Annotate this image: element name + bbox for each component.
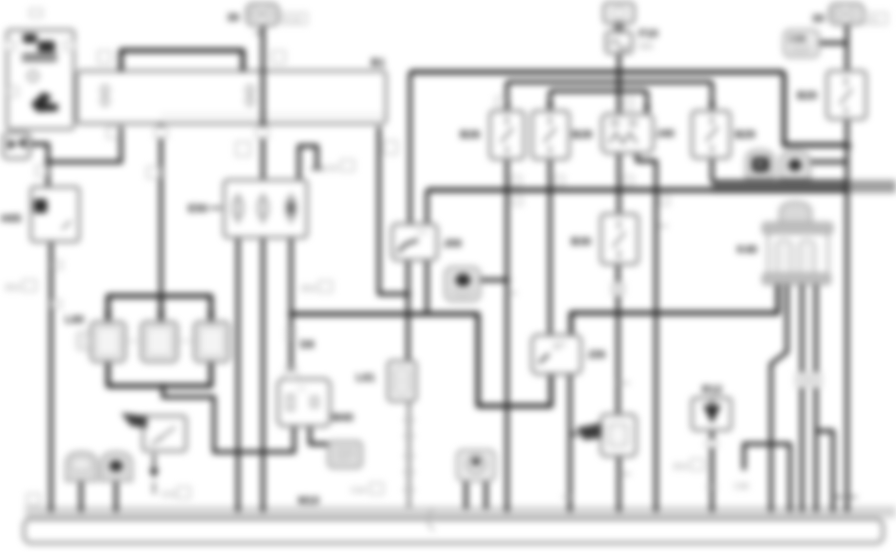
relay box B29 bbox=[692, 111, 730, 158]
C08 inner marks bbox=[790, 48, 812, 52]
connector 30 top-center bbox=[247, 4, 278, 25]
arrowhead relay B29 feed bbox=[708, 103, 716, 110]
svg-text:B1: B1 bbox=[371, 57, 385, 69]
wire bracket over B1 top bbox=[121, 51, 243, 72]
svg-text:C15: C15 bbox=[323, 164, 338, 173]
svg-text:J26: J26 bbox=[587, 349, 605, 361]
svg-text:B29: B29 bbox=[735, 129, 755, 141]
wire horn rail 182 bbox=[712, 180, 845, 184]
relay box B20 bbox=[827, 71, 866, 119]
wire lamp cluster top bracket bbox=[108, 296, 211, 322]
connector C1 left bbox=[3, 133, 30, 159]
wire B20 to ground bbox=[845, 119, 849, 512]
L10 arrow wedge bbox=[576, 423, 601, 440]
wire J26 bottom right to ground bbox=[568, 374, 572, 512]
J26 internals bbox=[539, 354, 549, 363]
lamp L10 bbox=[601, 415, 636, 457]
bottom dome lamp 1 bbox=[66, 452, 97, 481]
svg-text:D8: D8 bbox=[300, 339, 314, 351]
ignition key icon in A1 bbox=[31, 92, 58, 112]
wire B28 bottom to J26 bbox=[548, 159, 552, 335]
horn unit mid bbox=[445, 267, 480, 301]
svg-text:M40: M40 bbox=[332, 412, 353, 424]
lamp L61 bbox=[388, 361, 416, 401]
svg-text:E50: E50 bbox=[188, 203, 208, 215]
relay box B30 bbox=[601, 214, 638, 264]
wire branch91 into B28 bbox=[548, 91, 552, 111]
wire relay branch 82 bbox=[507, 80, 712, 84]
connector M10 socket bbox=[328, 441, 362, 468]
arrowhead lamp1 bbox=[104, 313, 112, 321]
horn small icon bbox=[468, 456, 485, 473]
node crossing dots bbox=[235, 449, 241, 455]
wire branch82 into B26 bbox=[505, 82, 509, 111]
svg-text:J40: J40 bbox=[656, 128, 674, 140]
body computer E50 bbox=[224, 180, 307, 238]
connector C08 bbox=[784, 30, 819, 57]
svg-text:B30: B30 bbox=[571, 236, 591, 248]
pilot circle in A1 bbox=[28, 71, 38, 81]
wire B30 to L10 bbox=[616, 264, 620, 415]
J09 check icon bbox=[398, 240, 418, 252]
node horn junction bbox=[504, 277, 510, 283]
H05 switch mark bbox=[62, 221, 71, 229]
pin square H05 wire bbox=[53, 261, 62, 269]
node branch82 junction bbox=[616, 79, 622, 85]
wire branch from pin4 to ground bbox=[816, 431, 833, 512]
horn dome 1 icon bbox=[752, 157, 769, 172]
wire lamp 2 feed leg bbox=[159, 296, 164, 322]
horn mid icon bbox=[456, 274, 471, 287]
connector ticks on B30 wire bbox=[612, 283, 624, 288]
node jog on bus D8 bbox=[653, 310, 659, 316]
node B26 on bus 190 bbox=[504, 187, 510, 193]
wire J09 right leg to bus bbox=[425, 260, 429, 314]
svg-text:J09: J09 bbox=[443, 238, 461, 250]
E50 coil 1 bbox=[233, 193, 296, 224]
wire J09 left leg down to L61 bbox=[406, 260, 410, 361]
wire bus 190 corner into J09 bbox=[425, 190, 429, 224]
arrowhead relay B26 feed bbox=[503, 103, 511, 110]
pin square H05 wire 2 bbox=[52, 300, 61, 308]
wire junction A down to H05 bbox=[46, 162, 50, 187]
lamp link dashes bbox=[125, 340, 194, 342]
connector C15 end tick bbox=[311, 168, 323, 170]
lamp L60 b bbox=[142, 322, 178, 362]
wire J26 top right to bus D8 right and K40 bbox=[571, 284, 778, 374]
connector C1 bowtie icon bbox=[8, 139, 17, 150]
bottom dome 2 icon bbox=[110, 461, 123, 472]
wire tick on node 30 feed bbox=[255, 32, 263, 34]
wire L61 to ground with connector ticks bbox=[408, 401, 411, 508]
wire B26 bottom to ground bbox=[505, 159, 509, 512]
arrowhead relay B28 feed bbox=[546, 103, 554, 110]
R50 connector wedge bbox=[121, 413, 147, 428]
arrowhead J40 feed bbox=[643, 106, 651, 113]
pin square top-left corner mark bbox=[30, 9, 42, 17]
node bus crossing at L61 feed bbox=[405, 311, 411, 317]
wire branch91 into J40 bbox=[645, 91, 649, 114]
wire connector C30 hook to ground bbox=[744, 444, 790, 512]
svg-text:H05: H05 bbox=[1, 213, 21, 225]
node lamp-ground junction bbox=[160, 383, 166, 389]
connector tick B26 ground wire bbox=[508, 292, 517, 294]
wire connector 30 right to B20 bbox=[845, 24, 849, 71]
node B28 on bus 190 bbox=[547, 187, 553, 193]
switch unit H05 bbox=[31, 187, 79, 242]
ground strip end curl bbox=[428, 508, 434, 531]
ref box node 30 top-center bbox=[282, 13, 307, 24]
wire R12 to ground bbox=[710, 430, 714, 512]
pin square bus82 bbox=[496, 97, 505, 106]
node A junction dot bbox=[45, 159, 51, 165]
relay J26 bbox=[532, 335, 581, 374]
wire from connector C1 to junction A bbox=[30, 144, 48, 162]
battery/ignition unit A1 bbox=[7, 30, 74, 129]
wire C08 to B20 net bbox=[819, 41, 847, 45]
L61 inner ticks bbox=[399, 373, 405, 389]
connector tick on jog wire bbox=[658, 225, 668, 227]
wire feed bus top down to J09 bbox=[408, 72, 412, 224]
pump K40 top flange bbox=[763, 223, 832, 233]
M10 inner lines bbox=[337, 449, 355, 459]
wire K40 pin3 to ground bbox=[800, 284, 804, 512]
arrowhead R50 bbox=[149, 469, 159, 478]
svg-text:B28: B28 bbox=[572, 129, 592, 141]
wire lamp dome 1 leg bbox=[79, 481, 83, 512]
pin tick M40 top bbox=[285, 371, 297, 378]
wire M40 right leg to M10 bbox=[310, 426, 332, 444]
lamp L60 c bbox=[195, 322, 230, 362]
wire bus 190 bbox=[427, 188, 849, 193]
wire K40 pin4 to ground bbox=[814, 284, 818, 512]
fuse element F10 bbox=[611, 7, 627, 19]
pin square J40 top bbox=[624, 99, 633, 108]
horn dome 2 icon bbox=[789, 159, 802, 171]
node J09 leg junction bbox=[405, 291, 411, 297]
pin square wire379 bbox=[384, 141, 397, 154]
wire bus D8 left run to J26 bbox=[291, 314, 551, 406]
fuse F10 holder top bbox=[604, 3, 634, 23]
svg-text:C21: C21 bbox=[161, 490, 176, 499]
wire E50 pin to ground 2 bbox=[261, 237, 265, 512]
E50 pointer bbox=[210, 207, 222, 209]
relay box B28 bbox=[532, 111, 569, 159]
wire H05 to ground bbox=[49, 241, 53, 512]
wire branch82 into B29 bbox=[710, 82, 714, 111]
wire from connector 30 top-center down through B1 to E50 bbox=[261, 25, 265, 180]
horn small bottom bbox=[457, 450, 495, 481]
wire B29 bottom pin bbox=[710, 158, 714, 182]
lamp L60 a bbox=[91, 322, 125, 362]
bottom dome 1 inner bbox=[72, 458, 91, 470]
wire relay branch 91 bbox=[550, 89, 647, 93]
fuse F10 link bbox=[614, 22, 624, 33]
relay B26 contacts bbox=[501, 77, 852, 259]
battery icon in A1 bbox=[22, 34, 57, 60]
svg-text:L61: L61 bbox=[356, 372, 375, 384]
wire E50 pin to ground bbox=[236, 237, 240, 512]
wire E50 pin to M40 bbox=[289, 237, 293, 379]
wire L10 to ground bbox=[617, 456, 621, 512]
wire lamp cluster bottom bracket bbox=[108, 362, 211, 386]
wire lamp dome 2 leg bbox=[114, 481, 118, 512]
node J40 on bus 190 bbox=[616, 187, 622, 193]
pin squares A1 edges bbox=[5, 41, 15, 50]
pin square B1 top 2 bbox=[272, 51, 285, 63]
wire horn to B26 net bbox=[481, 278, 507, 282]
ground bus strip bbox=[25, 506, 896, 518]
svg-text:A 1: A 1 bbox=[867, 15, 879, 24]
wire B1 pin to J09 leg bbox=[379, 127, 408, 294]
connector tick J26 ground wire bbox=[562, 496, 571, 498]
wire bus right corner down to B20 net bbox=[784, 72, 848, 145]
resistor R12 bbox=[692, 398, 731, 430]
wire F10 down to J40 bbox=[617, 53, 621, 114]
svg-text:C08: C08 bbox=[789, 34, 806, 44]
node bus D8 start bbox=[288, 311, 294, 317]
svg-text:B20: B20 bbox=[797, 90, 817, 102]
pin square B1 top 1 bbox=[98, 51, 111, 63]
R50 switch mark bbox=[151, 427, 175, 445]
svg-text:B26: B26 bbox=[460, 129, 480, 141]
connector ticks R12 wire bbox=[706, 440, 717, 447]
connector double tick on E50-M40 wire bbox=[285, 330, 297, 338]
svg-text:R12: R12 bbox=[702, 384, 722, 396]
connector ticks on K40 wires bbox=[796, 373, 807, 379]
wire main feed bus 30 bbox=[410, 70, 784, 75]
wire B1 pin to lamp bracket bbox=[159, 124, 163, 296]
pump K40 dome bbox=[780, 202, 811, 224]
relay J40 bbox=[602, 114, 653, 153]
svg-text:(D)1: (D)1 bbox=[5, 283, 21, 292]
wire R50 dash C21 bbox=[153, 482, 155, 494]
svg-text:C30: C30 bbox=[734, 482, 749, 491]
harness gray bar bbox=[712, 180, 896, 193]
pin square connector C1 bbox=[36, 166, 47, 176]
wire horn2 stub to B20 net bbox=[811, 160, 847, 164]
svg-text:50A: 50A bbox=[639, 42, 654, 51]
lamp L60 inner bbox=[96, 327, 120, 356]
horn dome 2 on rail bbox=[780, 151, 810, 179]
svg-text:L60: L60 bbox=[65, 314, 84, 326]
wire J40 right pin jog to ground bbox=[637, 153, 656, 512]
ref box node 30 top-right bbox=[864, 13, 887, 24]
pin squares B1 bottom bbox=[107, 127, 119, 138]
bottom dome lamp 2 bbox=[101, 452, 132, 481]
M40 internals bbox=[287, 395, 294, 410]
wire R50 arrow down bbox=[153, 454, 156, 469]
motor M40 bbox=[278, 379, 330, 426]
H05 icon dark bbox=[34, 199, 47, 213]
node B20 net junction bbox=[845, 143, 851, 149]
wire junction A to B1 bottom pin bbox=[48, 127, 121, 163]
fuse F10 body bbox=[606, 32, 632, 53]
R12 icon bbox=[703, 405, 721, 424]
instrument module J09 bbox=[392, 224, 437, 260]
wire lamp bracket to M40 bbox=[163, 386, 294, 452]
wire horn small legs bbox=[466, 481, 486, 509]
pump K40 body bbox=[768, 233, 828, 275]
pump K40 bottom flange bbox=[763, 274, 830, 284]
node F10 junction on bus bbox=[616, 69, 622, 75]
pin squares bus 190 bbox=[512, 176, 521, 185]
wire K40 pin2 jog to ground bbox=[771, 284, 787, 512]
arrowhead lamp2 bbox=[157, 313, 165, 321]
E50 coil 3 dark core bbox=[288, 201, 294, 215]
resistor R50 bbox=[143, 416, 186, 451]
svg-text:K40: K40 bbox=[737, 244, 757, 256]
svg-text:30: 30 bbox=[812, 13, 824, 25]
svg-text:(D)1: (D)1 bbox=[673, 462, 689, 471]
lamp left nub bbox=[77, 332, 90, 350]
node branch91 junction bbox=[616, 88, 622, 94]
arrowhead lamp3 bbox=[207, 313, 215, 321]
svg-text:A 12: A 12 bbox=[285, 15, 302, 24]
ground bar G1 bbox=[24, 519, 883, 543]
relay box B26 bbox=[490, 111, 524, 159]
connector ticks near ground right bbox=[834, 496, 857, 498]
relay J40 internals bbox=[612, 120, 618, 126]
svg-text:M10: M10 bbox=[298, 495, 319, 507]
B1 connector symbol pin 1 bbox=[101, 84, 255, 107]
wire E50 to connector C15 bbox=[299, 146, 317, 180]
svg-text:30: 30 bbox=[227, 12, 239, 24]
wire J40 left pin to B30 bbox=[617, 153, 621, 214]
B1 inner shelf line bbox=[160, 114, 384, 116]
pin square wire161 bbox=[147, 167, 160, 178]
svg-text:C10: C10 bbox=[351, 486, 366, 495]
svg-text:F10: F10 bbox=[639, 28, 658, 40]
pump K40 windows bbox=[776, 240, 792, 275]
svg-text:(D)1: (D)1 bbox=[301, 284, 317, 293]
pin square near ground left bbox=[27, 494, 40, 505]
connector 30 top-right bbox=[830, 4, 863, 24]
horn dome 1 on rail bbox=[746, 150, 774, 178]
pin square E50 top bbox=[236, 142, 250, 156]
fuse/relay box B1 bbox=[77, 71, 386, 124]
node jog on bus 190 bbox=[653, 187, 659, 193]
